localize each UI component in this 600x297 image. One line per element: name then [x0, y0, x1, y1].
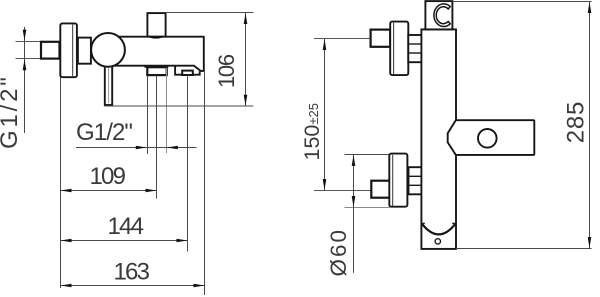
outlet seam arc	[149, 36, 163, 37]
dimension 144 line	[61, 240, 188, 242]
svg-text:G1/2": G1/2"	[76, 119, 132, 146]
arrow 144 left	[61, 239, 72, 243]
arrow left to holder	[167, 146, 178, 150]
wall supply fitting square	[41, 42, 60, 59]
arrow up to fitting bottom	[23, 59, 27, 70]
bottom cap arc	[422, 224, 455, 235]
extension line wall plane	[60, 77, 62, 288]
extension line 106 bottom	[104, 105, 253, 107]
arrow 285 down	[588, 237, 592, 248]
extension line flange bottom	[345, 207, 391, 209]
arrow 144 right	[177, 239, 188, 243]
arrow D60 down	[352, 196, 356, 207]
arrow 163 right	[194, 284, 205, 288]
extension line 106 top	[166, 12, 254, 14]
svg-text:150±25: 150±25	[300, 103, 324, 160]
top union square	[371, 30, 391, 47]
extension line holder right	[166, 68, 168, 153]
svg-text:163: 163	[114, 259, 150, 286]
top flange	[390, 22, 408, 76]
svg-text:285: 285	[563, 101, 590, 143]
lower nut facet lines	[409, 175, 423, 177]
supply pipe extension lines	[16, 41, 42, 43]
lever handle	[105, 58, 112, 105]
arrow 163 left	[61, 284, 72, 288]
dimension 106 line	[245, 13, 247, 107]
lower flange	[389, 154, 407, 207]
top supply line	[314, 38, 371, 40]
body knob circle	[478, 129, 497, 148]
top nut facet lines	[408, 43, 422, 45]
bottom cap seam stubs	[421, 222, 424, 224]
arrow down to fitting top	[23, 30, 27, 41]
lower hex nut	[409, 167, 423, 194]
extension line 285 bottom	[456, 248, 592, 250]
cartridge circle	[91, 33, 125, 67]
svg-text:Ø60: Ø60	[326, 228, 351, 277]
svg-text:106: 106	[214, 54, 239, 88]
lower flange inner line	[392, 155, 394, 206]
extension line aerator	[187, 75, 189, 251]
column bar	[421, 29, 456, 249]
spout aerator notch	[182, 71, 193, 75]
arrow 150 up	[323, 39, 327, 50]
arrow D60 up	[352, 155, 356, 166]
bottom cap hole	[435, 239, 440, 244]
connector between flange and cartridge	[78, 38, 91, 64]
top flange inner line	[393, 23, 395, 74]
arrow 285 up	[588, 2, 592, 13]
extension line flange top	[345, 154, 391, 156]
extension line 285 top	[452, 1, 591, 3]
extension line holder centre	[156, 76, 158, 199]
spout underside	[175, 66, 200, 75]
arrow 150 down	[323, 179, 327, 190]
wall flange	[60, 23, 77, 77]
arrow 109 left	[61, 189, 72, 193]
dimension G1/2 left vertical line	[24, 27, 26, 133]
arrow 109 right	[146, 189, 157, 193]
top shower outlet	[147, 13, 165, 36]
svg-text:144: 144	[108, 213, 144, 240]
dimension 285 line	[589, 2, 591, 249]
dimension D60 line	[353, 155, 355, 273]
svg-text:109: 109	[90, 163, 126, 190]
arrow 106 down	[244, 95, 248, 106]
handle inner edge line	[108, 66, 110, 103]
flange inner edge line	[72, 25, 74, 77]
dimension 163 line	[61, 285, 205, 287]
extension line holder left	[147, 76, 149, 154]
lower union square	[371, 181, 390, 198]
arrow 106 up	[244, 13, 248, 24]
top hex nut	[408, 35, 422, 62]
arrow right to holder	[136, 146, 147, 150]
body block	[112, 37, 204, 71]
extension line body end	[204, 71, 206, 295]
dimension G1/2 bottom line	[76, 147, 197, 149]
lower supply line	[314, 190, 371, 192]
mixer body front	[448, 120, 535, 155]
dimension 150+-25 line	[324, 39, 326, 191]
svg-text:G1/2": G1/2"	[0, 74, 23, 149]
dimension 109 line	[61, 190, 158, 192]
top bracket	[425, 1, 452, 29]
hand shower holder box	[147, 67, 166, 75]
C holder ring	[434, 4, 450, 27]
hand shower holder lip	[144, 66, 168, 68]
